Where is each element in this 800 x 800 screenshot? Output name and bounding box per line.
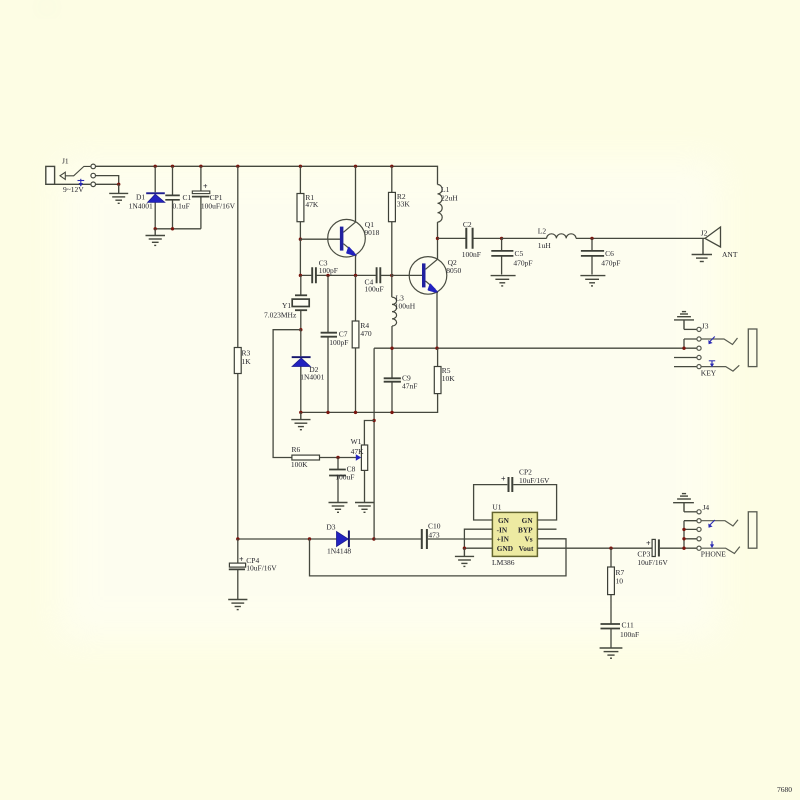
svg-text:R6: R6 bbox=[292, 445, 301, 454]
resistor R3 bbox=[234, 166, 251, 539]
loop wire Vs to D3 node bbox=[310, 539, 567, 576]
junction J1 ground node bbox=[117, 183, 120, 186]
svg-text:473: 473 bbox=[428, 531, 440, 540]
svg-text:J1: J1 bbox=[62, 157, 69, 166]
wire to W1 top bbox=[364, 421, 374, 446]
diode D3 bbox=[326, 523, 374, 556]
svg-text:PHONE: PHONE bbox=[701, 550, 726, 559]
wire U1 pin1 to CP2 bbox=[474, 485, 508, 520]
resistor R6 bbox=[291, 445, 338, 469]
svg-text:GN: GN bbox=[498, 516, 510, 525]
svg-text:J4: J4 bbox=[703, 503, 710, 512]
junction rail CP1 bbox=[199, 165, 202, 168]
svg-text:-IN: -IN bbox=[497, 525, 508, 534]
wire U1 Vout output bbox=[537, 547, 652, 549]
jack body bbox=[748, 512, 757, 548]
jack body bbox=[748, 329, 757, 367]
svg-text:470pF: 470pF bbox=[513, 259, 532, 268]
junction Q1 emitter / R4 node bbox=[354, 274, 357, 277]
svg-text:Y1: Y1 bbox=[282, 301, 291, 310]
resistor R5 bbox=[392, 348, 455, 412]
junction Vout / R7 bbox=[609, 547, 612, 550]
connector J3 KEY jack bbox=[674, 312, 757, 378]
svg-text:J2: J2 bbox=[701, 229, 708, 238]
svg-text:1uH: 1uH bbox=[538, 241, 552, 250]
svg-text:+: + bbox=[203, 182, 208, 191]
stub U1 BYP bbox=[537, 528, 556, 530]
wire keyed line bbox=[374, 347, 697, 349]
junction R3 / CP4 / audio line bbox=[236, 537, 239, 540]
junction rail D1 bbox=[154, 165, 157, 168]
svg-text:GN: GN bbox=[522, 516, 534, 525]
svg-text:7680: 7680 bbox=[777, 785, 792, 794]
crystal Y1 bbox=[264, 275, 309, 329]
svg-text:1N4001: 1N4001 bbox=[129, 201, 153, 210]
svg-text:47K: 47K bbox=[305, 200, 319, 209]
junction keyed line / L3-C9 bbox=[390, 347, 393, 350]
ground below W1 bbox=[355, 503, 374, 513]
junction U1 ground node bbox=[463, 547, 466, 550]
svg-text:L1: L1 bbox=[441, 185, 450, 194]
ground below C6 bbox=[580, 276, 605, 286]
svg-text:470: 470 bbox=[360, 329, 372, 338]
junction rail R3 bbox=[236, 165, 239, 168]
svg-text:Vout: Vout bbox=[519, 544, 534, 553]
svg-text:100uH: 100uH bbox=[395, 302, 416, 311]
capacitor C4 bbox=[365, 267, 392, 293]
contact lower bbox=[701, 365, 739, 371]
junction bottom D1 bbox=[154, 227, 157, 230]
ground below C11 bbox=[600, 648, 623, 658]
blue arrow J3 upper contact bbox=[708, 337, 715, 345]
wire Q1 base bbox=[300, 238, 340, 240]
junction crystal bottom node bbox=[299, 328, 302, 331]
ground below U1 bbox=[455, 548, 474, 566]
svg-text:1K: 1K bbox=[242, 357, 252, 366]
svg-text:22uH: 22uH bbox=[441, 194, 458, 203]
svg-text:J3: J3 bbox=[702, 322, 709, 331]
svg-text:KEY: KEY bbox=[701, 368, 717, 377]
svg-text:C10: C10 bbox=[428, 522, 441, 531]
inductor L3 bbox=[392, 275, 416, 348]
svg-text:100nF: 100nF bbox=[620, 630, 639, 639]
wire D3 to C10 bbox=[374, 538, 421, 540]
junction W1 branch bbox=[372, 419, 375, 422]
svg-text:GND: GND bbox=[497, 544, 513, 553]
svg-text:CP3: CP3 bbox=[637, 549, 650, 558]
ground below C5 bbox=[491, 276, 516, 286]
svg-text:1N4001: 1N4001 bbox=[300, 373, 324, 382]
junction C5 node bbox=[500, 237, 503, 240]
ground below CP4 bbox=[228, 600, 247, 610]
svg-text:C2: C2 bbox=[463, 220, 472, 229]
capacitor C9 bbox=[384, 348, 418, 413]
svg-text:BYP: BYP bbox=[518, 525, 533, 534]
svg-text:10: 10 bbox=[616, 576, 624, 585]
svg-text:W1: W1 bbox=[351, 437, 362, 446]
ground at J1 bbox=[109, 184, 128, 203]
ground above J4 bbox=[673, 494, 694, 512]
junction gnd rail C9 bbox=[390, 411, 393, 414]
svg-text:100uF/16V: 100uF/16V bbox=[201, 202, 236, 211]
wire output row to C2 bbox=[438, 237, 466, 239]
svg-text:10uF/16V: 10uF/16V bbox=[519, 476, 550, 485]
junction gnd rail C7 bbox=[326, 411, 329, 414]
junction gnd rail D2 bbox=[299, 411, 302, 414]
junction C6 node bbox=[590, 237, 593, 240]
contact upper bbox=[701, 338, 737, 345]
junction rail R2 bbox=[390, 165, 393, 168]
capacitor CP4 (polar) bbox=[229, 539, 278, 599]
potentiometer W1 bbox=[338, 437, 368, 502]
svg-text:10uF/16V: 10uF/16V bbox=[246, 564, 277, 573]
svg-text:+: + bbox=[646, 539, 651, 548]
svg-text:100uF: 100uF bbox=[365, 285, 384, 294]
wire bottom rail of input filter bbox=[155, 228, 201, 230]
polarity mark (blue) at J1 bbox=[78, 179, 85, 187]
svg-text:D1: D1 bbox=[136, 193, 145, 202]
svg-text:Vs: Vs bbox=[524, 535, 532, 544]
capacitor CP2 (polar) bbox=[501, 467, 557, 520]
junction gnd rail R4 bbox=[354, 411, 357, 414]
junction D3 anode / Vs loop bbox=[308, 537, 311, 540]
svg-text:470pF: 470pF bbox=[601, 259, 620, 268]
wire sidetone branch x=374 bbox=[373, 348, 375, 539]
connector J1 bbox=[46, 157, 119, 194]
ground at J2 bbox=[692, 238, 712, 261]
svg-text:LM386: LM386 bbox=[492, 558, 515, 567]
blue arrow J4 upper contact bbox=[708, 520, 715, 528]
contact lower bbox=[701, 547, 740, 554]
svg-text:L2: L2 bbox=[538, 227, 547, 236]
junction rail C1 bbox=[171, 165, 174, 168]
svg-text:100pF: 100pF bbox=[329, 338, 348, 347]
junction L1 / Q2 collector / C2 bbox=[436, 237, 439, 240]
wire R1 node down to C3/Y1 bbox=[299, 239, 301, 275]
junction R1 / Q1 base bbox=[299, 238, 302, 241]
svg-text:C11: C11 bbox=[622, 620, 634, 629]
svg-text:10uF/16V: 10uF/16V bbox=[637, 558, 668, 567]
capacitor CP3 (polar) bbox=[637, 539, 696, 567]
IC U1 LM386 bbox=[492, 503, 537, 567]
wire L2 to C6 and antenna bbox=[576, 237, 705, 239]
blue arrow J4 lower contact bbox=[710, 541, 714, 548]
svg-text:100K: 100K bbox=[291, 460, 308, 469]
svg-text:100nF: 100nF bbox=[462, 250, 481, 259]
svg-text:100pF: 100pF bbox=[319, 266, 338, 275]
svg-text:47K: 47K bbox=[351, 447, 365, 456]
capacitor C8 bbox=[329, 458, 356, 503]
ground below oscillator rail bbox=[291, 412, 310, 429]
svg-text:1N4148: 1N4148 bbox=[327, 547, 351, 556]
junction C4 / R2 / L3 / Q2 base node bbox=[390, 274, 393, 277]
capacitor C7 bbox=[321, 275, 349, 412]
capacitor C1 bbox=[165, 166, 191, 229]
svg-text:+: + bbox=[239, 555, 244, 564]
ground below C8 bbox=[329, 503, 348, 513]
inductor L1 bbox=[438, 185, 459, 239]
junction C3 left node bbox=[299, 274, 302, 277]
svg-text:10K: 10K bbox=[442, 374, 456, 383]
wire crystal node to R6 branch bbox=[273, 330, 301, 458]
svg-text:D3: D3 bbox=[326, 523, 335, 532]
junction D3 cathode / sidetone branch bbox=[372, 537, 375, 540]
svg-text:8050: 8050 bbox=[446, 266, 461, 275]
resistor R2 bbox=[389, 166, 411, 275]
contact upper bbox=[701, 520, 738, 526]
ground above J3 bbox=[674, 312, 694, 330]
svg-text:0.1uF: 0.1uF bbox=[173, 201, 190, 210]
inductor L2 bbox=[538, 227, 576, 251]
resistor R4 bbox=[352, 275, 372, 412]
svg-text:C6: C6 bbox=[605, 249, 614, 258]
svg-text:ANT: ANT bbox=[722, 250, 738, 259]
diode D1 bbox=[129, 166, 165, 229]
wire U1 GND to ground bbox=[464, 547, 492, 549]
junction keyed line / Q2 emitter / R5 bbox=[435, 347, 438, 350]
wire C3 to C4 bbox=[328, 274, 376, 276]
connector J2 antenna bbox=[701, 227, 738, 259]
junction bottom C1 bbox=[171, 227, 174, 230]
ground below D1/C1/CP1 bbox=[146, 229, 166, 246]
blue arrow J3 lower contact bbox=[709, 361, 715, 368]
svg-text:7.023MHz: 7.023MHz bbox=[264, 310, 297, 319]
diode D2 bbox=[292, 330, 325, 413]
svg-text:U1: U1 bbox=[492, 503, 501, 512]
capacitor C10 bbox=[422, 522, 493, 549]
capacitor C6 bbox=[581, 238, 620, 274]
capacitor C2 bbox=[462, 220, 502, 259]
svg-text:+: + bbox=[501, 475, 506, 484]
svg-text:33K: 33K bbox=[397, 200, 411, 209]
junction rail R1 bbox=[299, 165, 302, 168]
wire top +V rail bbox=[96, 166, 438, 184]
wire C5 to L2 bbox=[502, 237, 547, 239]
resistor R7 bbox=[608, 548, 625, 624]
junction R6 / C8 / W1 wiper bbox=[336, 456, 339, 459]
svg-text:C5: C5 bbox=[515, 249, 524, 258]
svg-text:+IN: +IN bbox=[497, 535, 510, 544]
junction rail Q1 collector bbox=[354, 165, 357, 168]
junction C3/C7 node bbox=[326, 274, 329, 277]
wire ground rail under oscillator bbox=[301, 411, 392, 413]
capacitor C5 bbox=[491, 238, 532, 274]
wire main audio line y=539 bbox=[238, 538, 337, 540]
svg-text:9018: 9018 bbox=[364, 228, 379, 237]
resistor R1 bbox=[297, 166, 319, 239]
transistor Q2 8050 bbox=[392, 238, 462, 348]
svg-text:100uF: 100uF bbox=[335, 473, 354, 482]
connector J4 PHONE jack bbox=[673, 494, 757, 559]
capacitor CP1 (polar) bbox=[192, 166, 236, 229]
wire U1 -IN to ground bbox=[464, 529, 492, 548]
transistor Q1 9018 bbox=[328, 166, 380, 275]
capacitor C11 bbox=[601, 620, 640, 647]
svg-text:9~12V: 9~12V bbox=[63, 185, 84, 194]
capacitor C3 bbox=[300, 258, 337, 283]
svg-text:47nF: 47nF bbox=[402, 382, 417, 391]
